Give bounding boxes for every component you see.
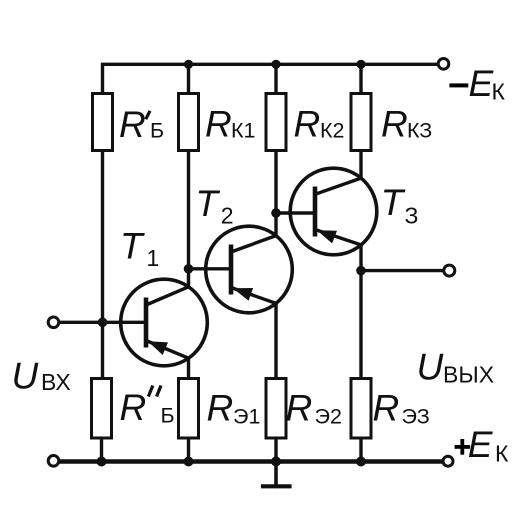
wire col1 bottom stub (R''Б to rail)	[100, 440, 103, 462]
wire T2 emitter vertical to R_Э2	[274, 303, 277, 377]
svg-text:ВЫХ: ВЫХ	[443, 361, 494, 387]
resistor R_К2	[266, 94, 286, 151]
svg-text:U: U	[417, 347, 444, 388]
wire T3 base lead	[276, 211, 315, 214]
svg-text:К: К	[492, 79, 506, 105]
node T2 collector / T3 base	[271, 208, 281, 218]
svg-text:К1: К1	[231, 119, 255, 143]
svg-text:R: R	[205, 104, 232, 145]
node T3 emitter / output	[356, 266, 366, 276]
wire col4 upper (rail to R_К3)	[359, 64, 362, 92]
wire col1 mid segment (R'Б bottom to R''Б top)	[101, 152, 104, 377]
svg-text:R: R	[294, 104, 321, 145]
wire col2 upper (rail to R_К1)	[187, 64, 190, 92]
svg-text:2: 2	[221, 203, 234, 229]
wire input lead (terminal to T1 base)	[59, 321, 146, 324]
node bottom rail / R_Э3	[356, 457, 366, 467]
wire col4 collector drop (R_К3 to T3 collector)	[359, 152, 362, 178]
terminal output	[444, 265, 455, 276]
wire output lead	[361, 269, 443, 272]
resistor R_Э2	[266, 379, 286, 439]
wire col3 bottom stub (R_Э2 to rail)	[274, 440, 277, 462]
node top rail / R_К2	[271, 60, 280, 69]
svg-text:R: R	[207, 388, 234, 429]
wire bottom supply rail	[60, 459, 441, 464]
wire col3 upper (rail to R_К2)	[274, 64, 277, 92]
wire T2 base lead	[189, 267, 232, 270]
svg-text:R: R	[119, 104, 146, 145]
svg-text:1: 1	[147, 245, 160, 271]
node input / R divider	[98, 318, 108, 328]
label R_К3	[381, 104, 432, 145]
label Uвх	[12, 355, 71, 396]
transistor T1	[121, 279, 208, 366]
svg-text:R: R	[286, 388, 313, 429]
label R'Б	[119, 104, 164, 145]
svg-text:U: U	[12, 355, 39, 396]
terminal +Ek	[443, 456, 453, 466]
terminal input signal	[48, 317, 59, 328]
svg-text:E: E	[468, 424, 494, 465]
svg-text:КЗ: КЗ	[407, 119, 432, 143]
label T2	[195, 183, 233, 229]
svg-text:R: R	[373, 388, 400, 429]
svg-text:К: К	[495, 441, 509, 467]
resistor R_Э3	[351, 379, 371, 439]
wire col4 bottom stub (R_Э3 to rail)	[359, 440, 362, 462]
node bottom rail / R''Б	[97, 457, 107, 467]
svg-text:ВХ: ВХ	[41, 369, 71, 395]
wire col2 collector drop (R_К1 to T1 collector)	[187, 152, 190, 287]
label R_К2	[294, 104, 345, 145]
node bottom rail / R_Э1	[184, 457, 194, 467]
svg-text:ЭЗ: ЭЗ	[402, 405, 430, 429]
label +Ek	[455, 424, 509, 467]
terminal -Ek	[438, 59, 449, 70]
wire col2 bottom stub (R_Э1 to rail)	[187, 440, 190, 462]
label R_Э2	[286, 388, 342, 429]
node T1 collector / T2 base	[184, 264, 194, 274]
svg-text:T: T	[120, 225, 145, 266]
label T3	[381, 182, 419, 228]
resistor R_Э1	[179, 379, 199, 439]
label -Ek	[449, 63, 505, 105]
transistor T2	[206, 226, 293, 313]
transistor T3	[290, 168, 377, 255]
svg-text:Б: Б	[161, 404, 175, 428]
svg-text:Э1: Э1	[233, 405, 260, 429]
ground	[263, 462, 290, 487]
wire T1 emitter vertical to R_Э1	[187, 358, 190, 377]
resistor R''Б	[92, 379, 112, 439]
resistor R_К3	[351, 94, 371, 151]
svg-text:T: T	[381, 182, 406, 223]
wire T3 emitter vertical to R_Э3	[359, 245, 362, 377]
svg-text:К2: К2	[320, 119, 344, 143]
svg-text:Э2: Э2	[315, 405, 342, 429]
label T1	[120, 225, 159, 271]
label R_Э1	[207, 388, 261, 429]
resistor R_К1	[179, 94, 199, 151]
svg-text:R: R	[120, 387, 147, 428]
svg-text:Б: Б	[150, 119, 164, 143]
label Uвых	[417, 347, 495, 388]
wire col3 collector drop (R_К2 to T2 collector)	[274, 152, 277, 236]
label R''Б	[120, 386, 175, 429]
label R_К1	[205, 104, 255, 145]
node top rail / R_К1	[184, 60, 193, 69]
svg-text:R: R	[381, 104, 408, 145]
node bottom rail / ground	[271, 457, 281, 467]
svg-text:T: T	[195, 183, 220, 224]
resistor R'Б	[93, 94, 113, 151]
node top rail / R_К3	[356, 60, 365, 69]
terminal input common	[48, 456, 59, 467]
label R_Э3	[373, 388, 430, 429]
svg-text:З: З	[405, 202, 419, 228]
wire top supply rail	[103, 64, 438, 92]
